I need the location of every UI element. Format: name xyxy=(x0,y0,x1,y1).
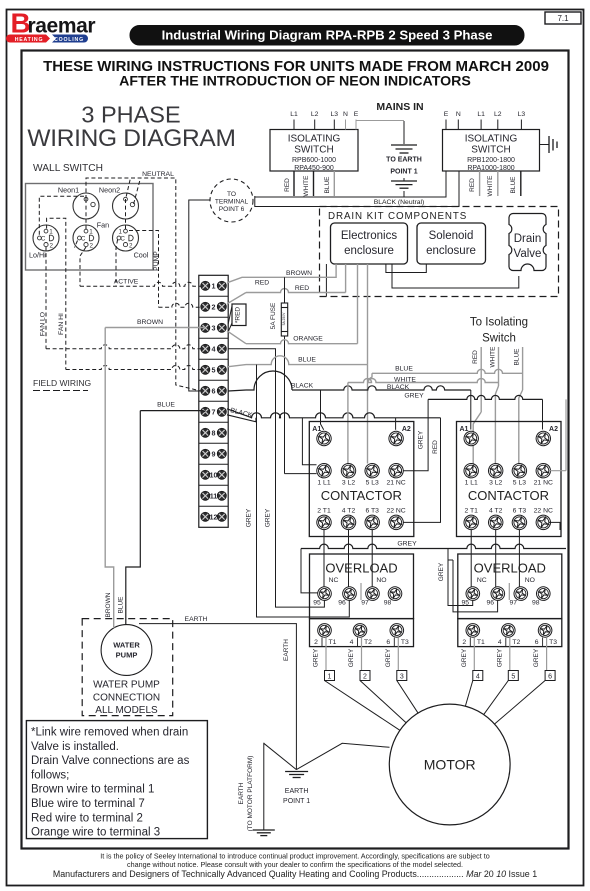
svg-text:2: 2 xyxy=(49,243,53,250)
svg-text:2: 2 xyxy=(89,243,93,250)
svg-text:WIRING DIAGRAM: WIRING DIAGRAM xyxy=(27,125,235,152)
svg-text:Solenoid: Solenoid xyxy=(429,230,474,242)
svg-text:95: 95 xyxy=(313,600,321,607)
svg-text:3 L2: 3 L2 xyxy=(342,480,355,487)
switch Cool xyxy=(113,225,139,251)
svg-text:RPB1200-1800: RPB1200-1800 xyxy=(467,157,515,164)
svg-text:T1: T1 xyxy=(477,639,485,646)
earth to motor platform xyxy=(263,743,265,830)
svg-text:RED: RED xyxy=(469,178,476,192)
svg-text:11: 11 xyxy=(210,491,218,500)
svg-text:6: 6 xyxy=(548,673,552,680)
isolating switch 2 xyxy=(443,130,540,172)
svg-text:RED: RED xyxy=(432,440,439,454)
terminal 10 xyxy=(201,470,210,479)
wire from terminal 7 branch to 1L1 xyxy=(302,418,316,465)
svg-text:THESE WIRING INSTRUCTIONS FOR: THESE WIRING INSTRUCTIONS FOR UNITS MADE… xyxy=(43,58,549,75)
svg-text:change without notice. Please: change without notice. Please consult wi… xyxy=(127,860,463,869)
svg-text:COOLING: COOLING xyxy=(54,37,84,43)
drain valve xyxy=(509,214,546,271)
neon1 to lo/hi C link xyxy=(39,196,84,235)
svg-text:L2: L2 xyxy=(311,111,319,118)
svg-text:BLACK (Neutral): BLACK (Neutral) xyxy=(374,199,425,206)
svg-text:4: 4 xyxy=(350,639,354,646)
svg-text:5A FUSE: 5A FUSE xyxy=(270,302,277,329)
iso1 neutral/earth routing xyxy=(356,120,404,122)
svg-text:Neon2: Neon2 xyxy=(99,186,120,195)
svg-text:2: 2 xyxy=(212,302,216,311)
svg-text:7.1: 7.1 xyxy=(557,14,569,23)
svg-text:BLACK: BLACK xyxy=(291,383,314,390)
svg-text:RPA450-900: RPA450-900 xyxy=(294,165,334,172)
svg-text:2: 2 xyxy=(129,243,133,250)
svg-text:10: 10 xyxy=(210,470,218,479)
svg-text:TO EARTH: TO EARTH xyxy=(386,157,422,164)
electronics enclosure xyxy=(331,223,408,264)
svg-text:22 NC: 22 NC xyxy=(534,508,553,515)
svg-text:FIELD WIRING: FIELD WIRING xyxy=(33,378,91,388)
svg-text:OVERLOAD: OVERLOAD xyxy=(474,561,546,576)
svg-text:T3: T3 xyxy=(549,639,557,646)
svg-text:A2: A2 xyxy=(402,426,411,433)
svg-text:21 NC: 21 NC xyxy=(534,480,553,487)
svg-text:ALL MODELS: ALL MODELS xyxy=(95,705,158,716)
wire terminal 4 down xyxy=(228,349,324,607)
overload 1 xyxy=(310,554,414,619)
svg-text:22 NC: 22 NC xyxy=(386,508,405,515)
svg-text:4: 4 xyxy=(498,639,502,646)
wire blue terminal 7 to contactors xyxy=(227,409,252,418)
svg-text:BROWN: BROWN xyxy=(286,270,312,277)
contactor2 T wires to overload2 xyxy=(470,530,472,588)
svg-text:5 L3: 5 L3 xyxy=(366,480,379,487)
svg-text:BLUE: BLUE xyxy=(514,348,521,366)
switch Lo/Hi xyxy=(33,225,59,251)
svg-text:ACTIVE: ACTIVE xyxy=(114,279,139,286)
svg-text:2 T1: 2 T1 xyxy=(464,508,478,515)
terminal 11 xyxy=(201,491,210,500)
terminal 2 xyxy=(201,302,210,311)
connector tab on circle xyxy=(254,196,256,207)
svg-text:Manufacturers and Designers of: Manufacturers and Designers of Technical… xyxy=(53,869,537,879)
svg-text:EARTH: EARTH xyxy=(185,616,208,623)
svg-text:T3: T3 xyxy=(401,639,409,646)
svg-text:5 L3: 5 L3 xyxy=(513,480,526,487)
terminal 1 xyxy=(201,281,210,290)
svg-text:RED: RED xyxy=(472,350,479,364)
earth symbol top xyxy=(391,144,417,146)
earth symbol top second xyxy=(403,178,405,181)
svg-text:8: 8 xyxy=(212,428,216,437)
terminal 9 xyxy=(201,449,210,458)
svg-text:Electronics: Electronics xyxy=(341,230,397,242)
grey bus humps over contactor2 drops xyxy=(448,544,566,548)
terminal 3 xyxy=(201,323,210,332)
svg-text:Blue wire to terminal 7: Blue wire to terminal 7 xyxy=(31,798,145,810)
svg-text:NC: NC xyxy=(477,577,487,584)
svg-text:CONTACTOR: CONTACTOR xyxy=(468,488,549,503)
svg-text:95: 95 xyxy=(462,600,470,607)
svg-text:4 T2: 4 T2 xyxy=(489,508,503,515)
svg-text:3: 3 xyxy=(212,323,216,332)
svg-text:PUMP: PUMP xyxy=(116,651,138,660)
svg-text:2: 2 xyxy=(462,639,466,646)
svg-text:EARTH: EARTH xyxy=(285,788,309,795)
terminal 7 xyxy=(201,407,210,416)
svg-text:Red wire to terminal 2: Red wire to terminal 2 xyxy=(31,812,143,824)
water pump xyxy=(101,625,152,676)
svg-text:To Isolating: To Isolating xyxy=(470,317,528,329)
svg-text:SWITCH: SWITCH xyxy=(471,145,510,156)
overload 2 xyxy=(458,554,562,619)
svg-text:Neon1: Neon1 xyxy=(58,186,79,195)
svg-text:3 L2: 3 L2 xyxy=(489,480,502,487)
svg-text:GREY: GREY xyxy=(533,648,540,667)
terminal 8 xyxy=(201,428,210,437)
svg-text:CONNECTION: CONNECTION xyxy=(93,693,160,704)
electronics stub wire xyxy=(325,264,327,297)
svg-text:follows;: follows; xyxy=(31,769,69,781)
svg-text:Valve is installed.: Valve is installed. xyxy=(31,741,119,753)
terminal 6 xyxy=(201,386,210,395)
svg-text:GREY: GREY xyxy=(313,648,320,667)
svg-text:C: C xyxy=(41,236,46,243)
svg-text:enclosure: enclosure xyxy=(426,245,476,257)
svg-text:RED: RED xyxy=(284,178,291,192)
svg-text:C: C xyxy=(120,236,125,243)
svg-text:4: 4 xyxy=(476,673,480,680)
svg-text:BLUE: BLUE xyxy=(510,176,517,194)
svg-text:BLUE: BLUE xyxy=(157,402,175,409)
svg-text:3: 3 xyxy=(400,673,404,680)
branch to A2 coil xyxy=(395,418,397,430)
svg-text:6: 6 xyxy=(212,386,216,395)
svg-text:4 T2: 4 T2 xyxy=(342,508,356,515)
iso2 earth symbol right xyxy=(540,144,550,146)
svg-text:NO: NO xyxy=(376,577,386,584)
svg-text:WHITE: WHITE xyxy=(303,175,310,197)
svg-text:2: 2 xyxy=(314,639,318,646)
svg-text:RPA1000-1800: RPA1000-1800 xyxy=(467,165,514,172)
svg-text:FAN HI: FAN HI xyxy=(58,313,65,335)
svg-text:BROWN: BROWN xyxy=(105,592,112,617)
svg-text:97: 97 xyxy=(361,600,369,607)
terminal strip xyxy=(199,275,228,527)
svg-text:Industrial Wiring Diagram RPA-: Industrial Wiring Diagram RPA-RPB 2 Spee… xyxy=(162,28,493,43)
svg-text:97: 97 xyxy=(510,600,518,607)
svg-text:WHITE: WHITE xyxy=(489,346,496,368)
svg-text:6 T3: 6 T3 xyxy=(513,508,527,515)
svg-text:5: 5 xyxy=(511,673,515,680)
svg-text:(TO MOTOR PLATFORM): (TO MOTOR PLATFORM) xyxy=(247,756,254,832)
svg-text:E: E xyxy=(354,111,359,118)
svg-text:POINT 1: POINT 1 xyxy=(283,798,310,805)
svg-text:C: C xyxy=(81,236,86,243)
svg-text:PUMP: PUMP xyxy=(153,251,160,271)
svg-text:T2: T2 xyxy=(512,639,520,646)
svg-text:2 T1: 2 T1 xyxy=(317,508,331,515)
svg-text:N: N xyxy=(343,111,348,118)
svg-text:NC: NC xyxy=(329,577,339,584)
wire circle to terminal 6 xyxy=(189,200,210,391)
grey bus feed to overload1 pin 95 xyxy=(301,549,318,593)
svg-text:A2: A2 xyxy=(549,426,558,433)
svg-text:21 NC: 21 NC xyxy=(386,480,405,487)
svg-text:GREY: GREY xyxy=(385,648,392,667)
svg-text:1: 1 xyxy=(89,229,93,236)
terminal 12 xyxy=(201,512,210,521)
svg-text:WATER PUMP: WATER PUMP xyxy=(93,680,160,691)
svg-text:GREY: GREY xyxy=(496,648,503,667)
svg-text:Switch: Switch xyxy=(482,333,516,345)
svg-text:MAINS IN: MAINS IN xyxy=(376,101,423,113)
contactor 2 xyxy=(457,422,562,537)
svg-text:CONTACTOR: CONTACTOR xyxy=(321,488,402,503)
contactor1 T wires to overload1 xyxy=(323,530,325,588)
svg-text:WATER: WATER xyxy=(113,641,140,650)
svg-text:L1: L1 xyxy=(290,111,298,118)
svg-text:T2: T2 xyxy=(364,639,372,646)
svg-text:5A 250V: 5A 250V xyxy=(282,312,286,326)
terminal 4 xyxy=(201,344,210,353)
svg-text:RED: RED xyxy=(295,285,309,292)
water pump connection box xyxy=(82,619,173,716)
svg-text:TERMINAL: TERMINAL xyxy=(215,199,249,206)
svg-text:BROWN: BROWN xyxy=(137,319,163,326)
svg-text:BLUE: BLUE xyxy=(395,366,413,373)
switch Fan xyxy=(73,225,99,251)
drain kit grey wires down xyxy=(357,264,359,344)
cool C branch to active xyxy=(116,240,118,287)
svg-text:GREY: GREY xyxy=(397,541,417,548)
svg-text:RPB600-1000: RPB600-1000 xyxy=(292,157,336,164)
svg-text:MOTOR: MOTOR xyxy=(424,757,476,773)
svg-text:96: 96 xyxy=(487,600,495,607)
svg-text:NO: NO xyxy=(525,577,535,584)
svg-text:ISOLATING: ISOLATING xyxy=(465,134,518,145)
svg-text:GREY: GREY xyxy=(438,562,445,581)
svg-text:3 PHASE: 3 PHASE xyxy=(81,102,180,128)
svg-text:BLUE: BLUE xyxy=(118,596,125,614)
neon1 to fan link xyxy=(85,199,87,231)
svg-text:GREY: GREY xyxy=(461,648,468,667)
svg-text:Lo/Hi: Lo/Hi xyxy=(29,251,46,260)
svg-text:GREY: GREY xyxy=(348,648,355,667)
svg-text:DRAIN KIT COMPONENTS: DRAIN KIT COMPONENTS xyxy=(328,211,467,222)
svg-text:*RED: *RED xyxy=(235,307,242,324)
svg-text:GREY: GREY xyxy=(265,508,272,527)
svg-text:Drain: Drain xyxy=(514,233,541,245)
svg-text:NEUTRAL: NEUTRAL xyxy=(142,171,174,178)
svg-text:7: 7 xyxy=(212,407,216,416)
svg-text:BLUE: BLUE xyxy=(298,357,316,364)
svg-text:OVERLOAD: OVERLOAD xyxy=(325,561,397,576)
solenoid enclosure xyxy=(417,223,486,264)
title banner xyxy=(130,26,524,46)
wire black neutral pair xyxy=(255,171,446,197)
svg-text:POINT 6: POINT 6 xyxy=(219,206,245,213)
svg-text:HEATING: HEATING xyxy=(15,37,44,43)
node: to terminal point 6 xyxy=(210,179,253,222)
svg-text:E: E xyxy=(444,111,449,118)
contactor 1 xyxy=(309,422,414,537)
svg-text:L1: L1 xyxy=(477,111,485,118)
svg-text:2: 2 xyxy=(363,673,367,680)
svg-text:Orange wire to terminal 3: Orange wire to terminal 3 xyxy=(31,827,160,839)
svg-text:1 L1: 1 L1 xyxy=(317,480,330,487)
svg-text:raemar: raemar xyxy=(28,15,96,38)
svg-text:Brown wire to terminal 1: Brown wire to terminal 1 xyxy=(31,784,154,796)
svg-text:6: 6 xyxy=(386,639,390,646)
svg-text:4: 4 xyxy=(212,344,216,353)
svg-text:AFTER THE INTRODUCTION OF NEON: AFTER THE INTRODUCTION OF NEON INDICATOR… xyxy=(119,74,471,90)
svg-text:Cool: Cool xyxy=(134,251,149,260)
drain kit components box xyxy=(320,207,559,297)
svg-text:1: 1 xyxy=(212,281,216,290)
svg-text:5: 5 xyxy=(212,365,216,374)
revision box 7.1 xyxy=(545,12,581,24)
neutral drop to terminal 6 xyxy=(176,283,203,392)
svg-text:96: 96 xyxy=(338,600,346,607)
svg-text:98: 98 xyxy=(532,600,540,607)
neon2 to cool link xyxy=(125,199,127,231)
svg-text:WALL SWITCH: WALL SWITCH xyxy=(33,163,103,174)
earth point 1 bottom xyxy=(285,771,308,773)
electronics to solenoid link xyxy=(386,264,426,273)
wire E to earth xyxy=(403,121,405,144)
svg-text:BLUE: BLUE xyxy=(324,176,331,194)
svg-text:ISOLATING: ISOLATING xyxy=(288,134,341,145)
Braemar logo xyxy=(6,8,95,44)
svg-text:L3: L3 xyxy=(518,111,526,118)
svg-text:EARTH: EARTH xyxy=(283,639,290,661)
svg-text:1: 1 xyxy=(328,673,332,680)
svg-text:Valve: Valve xyxy=(514,248,542,260)
terminal 5 xyxy=(201,365,210,374)
svg-text:TO: TO xyxy=(227,191,236,198)
motor xyxy=(389,704,510,825)
svg-text:Fan: Fan xyxy=(97,221,109,230)
svg-text:BLACK: BLACK xyxy=(387,384,410,391)
svg-text:enclosure: enclosure xyxy=(344,245,394,257)
svg-text:1 L1: 1 L1 xyxy=(465,480,478,487)
svg-text:6 T3: 6 T3 xyxy=(365,508,379,515)
svg-text:9: 9 xyxy=(212,449,216,458)
svg-text:RED: RED xyxy=(255,280,269,287)
svg-text:SWITCH: SWITCH xyxy=(294,145,333,156)
svg-text:*Link wire removed when drain: *Link wire removed when drain xyxy=(31,727,188,739)
svg-text:L3: L3 xyxy=(331,111,339,118)
svg-text:L2: L2 xyxy=(494,111,502,118)
svg-text:6: 6 xyxy=(535,639,539,646)
svg-text:GREY: GREY xyxy=(246,508,253,527)
svg-text:T1: T1 xyxy=(329,639,337,646)
svg-text:WHITE: WHITE xyxy=(487,175,494,197)
svg-text:12: 12 xyxy=(210,512,218,521)
earth junction diagonals xyxy=(264,743,297,769)
lo/hi pin1 to fan hi xyxy=(47,218,66,369)
svg-text:1: 1 xyxy=(49,229,53,236)
link box *RED xyxy=(232,304,246,326)
note box: link wire xyxy=(26,721,207,839)
right riser 21NC to grey xyxy=(565,399,567,470)
svg-text:GREY: GREY xyxy=(418,430,425,449)
svg-text:POINT 1: POINT 1 xyxy=(390,169,417,176)
svg-text:EARTH: EARTH xyxy=(238,782,245,804)
svg-text:FAN LO: FAN LO xyxy=(40,312,47,336)
contactor2 22NC wire xyxy=(549,522,560,530)
solenoid to drain valve link xyxy=(392,264,519,288)
svg-text:ORANGE: ORANGE xyxy=(293,336,323,343)
isolating switch 1 xyxy=(270,130,358,172)
svg-text:N: N xyxy=(456,111,461,118)
motor leads 1-6 xyxy=(325,681,400,731)
wire blue branch down to overload 1 pin 96 xyxy=(257,365,350,617)
svg-text:98: 98 xyxy=(384,600,392,607)
svg-text:Drain Valve connections are as: Drain Valve connections are as xyxy=(31,755,190,767)
svg-text:GREY: GREY xyxy=(404,393,424,400)
